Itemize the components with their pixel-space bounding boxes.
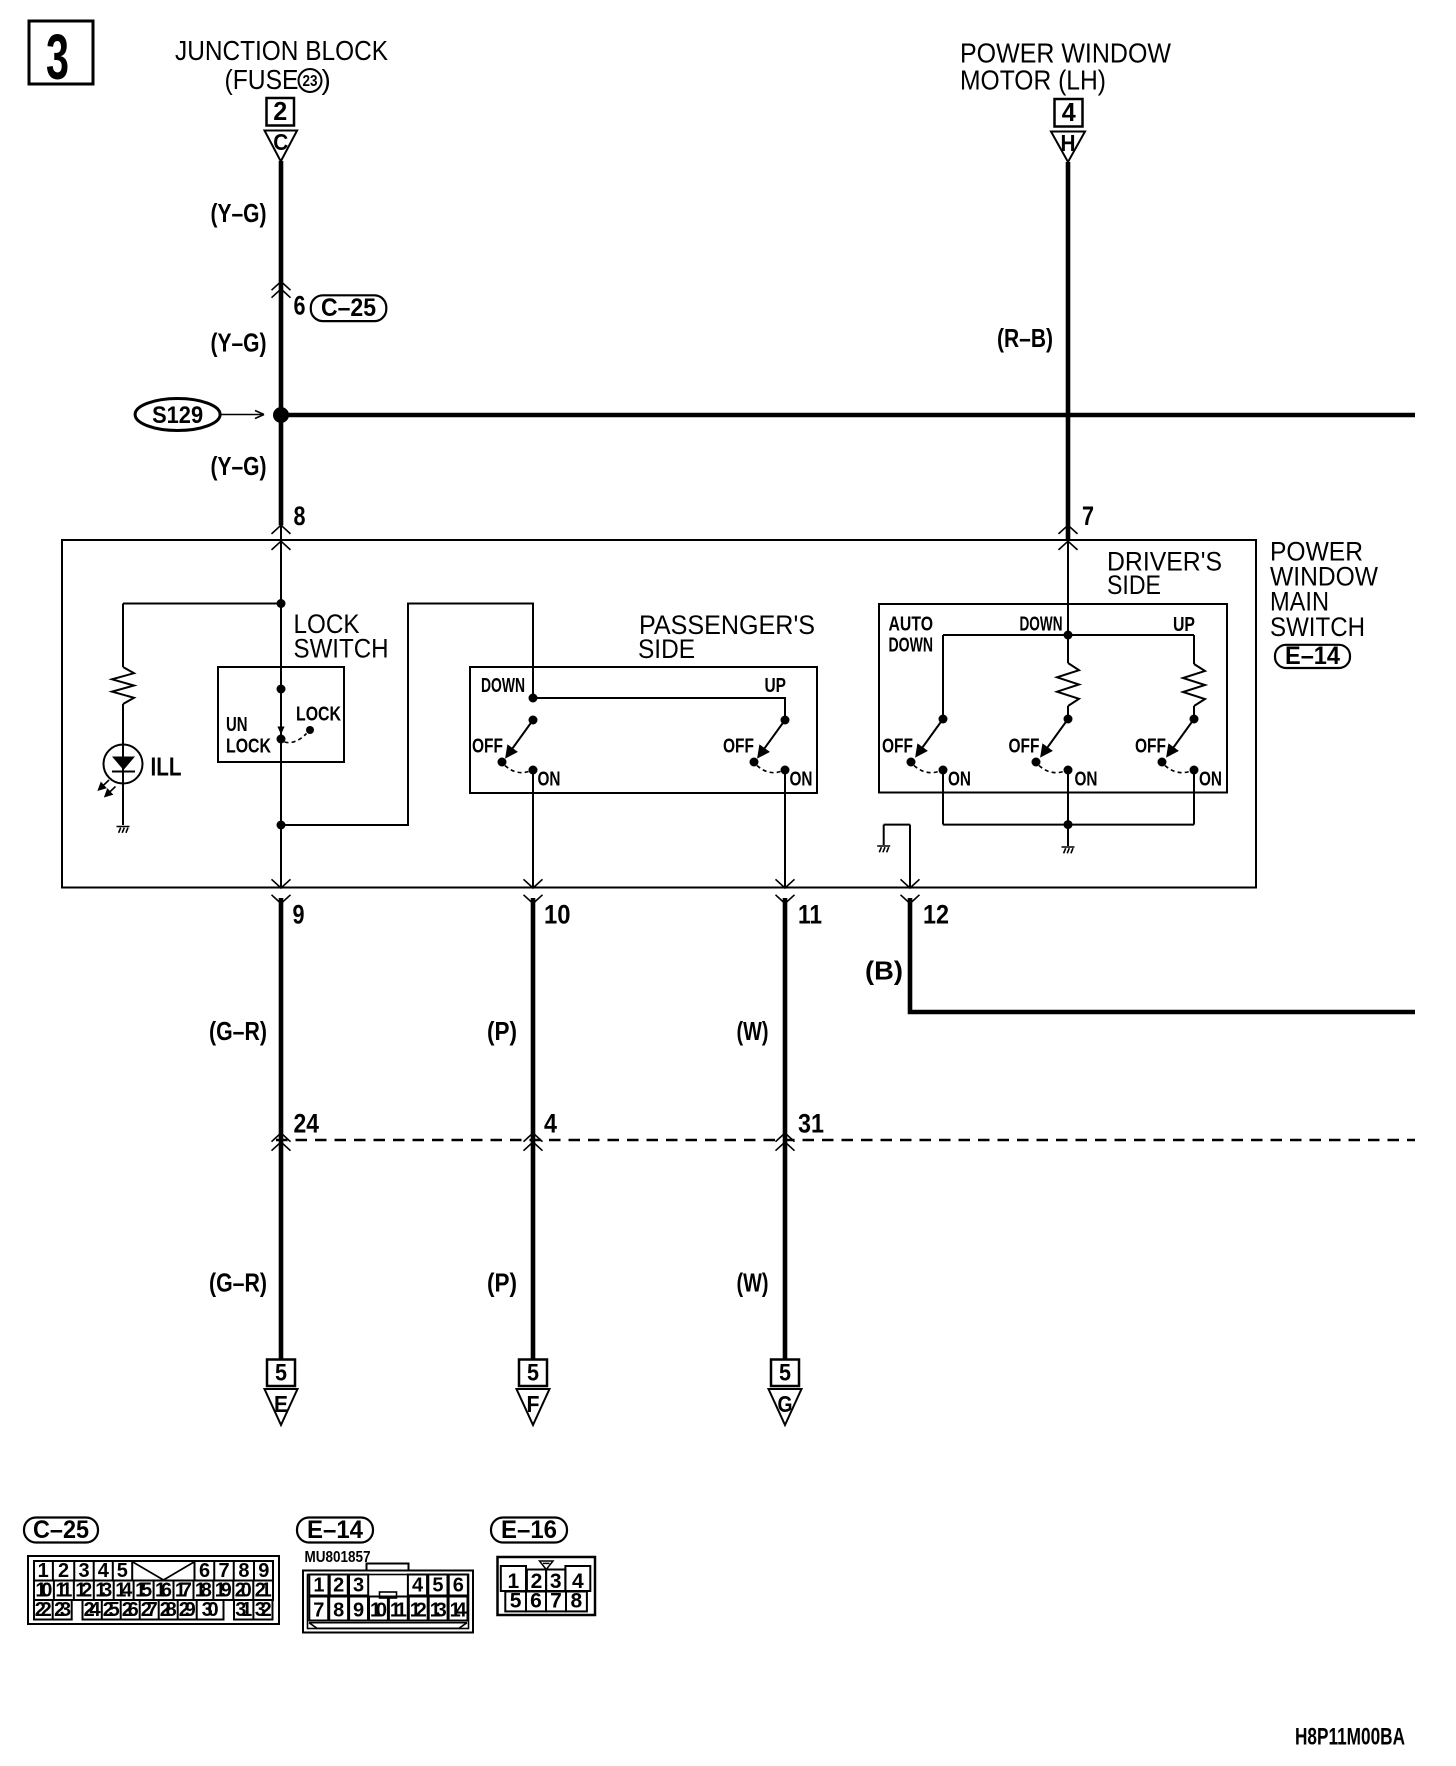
node auto down ON xyxy=(939,766,948,775)
node lock switch top contact xyxy=(277,685,286,694)
connector triangle H xyxy=(1051,132,1085,163)
connector tag C-25 (pinout) xyxy=(24,1518,98,1543)
svg-text:LOCK: LOCK xyxy=(296,704,341,726)
wire: fuse 23 down to S129 junction and on to pin 8 xyxy=(279,161,284,525)
wire: driver feed bus xyxy=(943,634,1194,636)
svg-text:8: 8 xyxy=(333,1600,344,1622)
auto down switch lever xyxy=(917,719,943,755)
connector triangle G xyxy=(769,1389,802,1425)
svg-text:(Y–G): (Y–G) xyxy=(211,451,267,481)
connector pin box 5 (F) xyxy=(519,1360,547,1387)
svg-text:E–16: E–16 xyxy=(501,1516,557,1544)
svg-text:29: 29 xyxy=(179,1599,196,1621)
label POWER WINDOW MAIN SWITCH xyxy=(1270,537,1378,643)
wire: power window motor lead (R-B) xyxy=(1066,162,1071,540)
connector E-14 pinout body xyxy=(303,1564,473,1633)
pin 11 exit chevrons xyxy=(776,879,795,888)
svg-text:UN: UN xyxy=(226,714,248,736)
wire xyxy=(122,704,124,825)
node passenger DOWN contact xyxy=(529,694,538,703)
wire: pin 10 lead (P) xyxy=(531,898,536,1360)
label POWER WINDOW MOTOR (LH) xyxy=(960,38,1172,96)
passenger down throw arc xyxy=(505,766,529,773)
connector pin box 2 xyxy=(267,98,295,126)
svg-text:9: 9 xyxy=(293,900,305,930)
wire: pin 8 feed down through lock switch xyxy=(280,525,282,887)
svg-text:OFF: OFF xyxy=(723,736,754,758)
svg-text:22: 22 xyxy=(35,1599,52,1621)
resistor (driver up) xyxy=(1183,664,1205,706)
svg-text:5: 5 xyxy=(275,1360,287,1387)
dashed line crossing chevrons wire 24 xyxy=(272,1133,291,1142)
svg-text:SIDE: SIDE xyxy=(1107,570,1161,600)
svg-text:SWITCH: SWITCH xyxy=(1270,612,1365,642)
passenger switch box xyxy=(470,667,817,793)
svg-text:(G–R): (G–R) xyxy=(209,1016,267,1046)
lock switch box xyxy=(218,667,344,762)
connector tag C-25 xyxy=(311,295,387,321)
connector E-16 pinout body xyxy=(498,1557,596,1615)
wire: S129 bus to right edge xyxy=(281,413,1415,418)
node auto down OFF xyxy=(907,758,916,767)
harness boundary dashed line xyxy=(276,1139,1415,1142)
svg-text:2: 2 xyxy=(273,96,287,126)
svg-text:DOWN: DOWN xyxy=(889,635,934,657)
connector tag E-14 (pinout) xyxy=(297,1518,373,1543)
connector pin box 4 xyxy=(1055,99,1083,127)
wire: branch to illumination lamp xyxy=(123,603,281,605)
wire: auto down ON drop xyxy=(942,770,944,825)
svg-text:): ) xyxy=(322,64,331,95)
svg-text:11: 11 xyxy=(798,900,822,930)
svg-text:OFF: OFF xyxy=(472,736,503,758)
wire xyxy=(1193,635,1195,664)
svg-text:(Y–G): (Y–G) xyxy=(211,198,267,228)
svg-text:25: 25 xyxy=(103,1599,120,1621)
svg-text:OFF: OFF xyxy=(882,736,913,758)
wire: auto down branch xyxy=(942,635,944,719)
node driver ON bus junction xyxy=(1064,820,1073,829)
connector C-25 pinout body xyxy=(28,1556,279,1624)
svg-text:5: 5 xyxy=(510,1590,522,1613)
wire: driver up ON drop xyxy=(1193,770,1195,825)
svg-text:31: 31 xyxy=(235,1599,252,1621)
svg-text:4: 4 xyxy=(1062,97,1077,127)
pin numbers C-25 row 1 xyxy=(35,1560,272,1621)
wire: ground stub xyxy=(883,825,885,845)
svg-text:3: 3 xyxy=(353,1575,364,1597)
LED ILL lamp xyxy=(99,745,143,797)
wire: DOWN contact to UP switch pivot xyxy=(533,698,785,720)
svg-text:7: 7 xyxy=(1082,501,1094,531)
svg-text:6: 6 xyxy=(453,1575,464,1597)
svg-text:MOTOR (LH): MOTOR (LH) xyxy=(960,65,1106,96)
connector triangle C xyxy=(265,131,298,162)
svg-text:28: 28 xyxy=(160,1599,177,1621)
node driver down OFF xyxy=(1032,758,1041,767)
connector pin box 5 (G) xyxy=(771,1360,799,1387)
node driver up ON xyxy=(1190,766,1199,775)
svg-text:SIDE: SIDE xyxy=(638,634,695,664)
dashed line crossing chevrons wire 4 xyxy=(524,1133,543,1142)
wire: passenger up ON to pin 11 xyxy=(784,770,786,888)
svg-text:24: 24 xyxy=(294,1109,320,1139)
resistor (driver down) xyxy=(1057,663,1079,706)
pin 12 exit chevrons xyxy=(901,879,920,888)
driver up throw arc xyxy=(1165,766,1190,773)
node S129 junction dot xyxy=(273,407,289,423)
driver up switch lever xyxy=(1168,719,1194,755)
svg-text:7: 7 xyxy=(313,1600,324,1622)
svg-text:ON: ON xyxy=(1075,769,1098,791)
driver down switch lever xyxy=(1042,719,1068,755)
svg-text:10: 10 xyxy=(544,900,571,930)
svg-text:23: 23 xyxy=(303,73,318,90)
svg-text:H8P11M00BA: H8P11M00BA xyxy=(1295,1724,1405,1751)
sheet number box 3 xyxy=(29,21,93,84)
wire: pin 11 lead (W) xyxy=(783,898,788,1360)
svg-text:5: 5 xyxy=(527,1360,539,1387)
svg-text:ON: ON xyxy=(1199,769,1222,791)
svg-text:12: 12 xyxy=(410,1600,427,1622)
svg-text:5: 5 xyxy=(432,1575,443,1597)
svg-text:(B): (B) xyxy=(865,956,903,986)
passenger down switch lever xyxy=(507,720,533,756)
svg-text:6: 6 xyxy=(294,291,306,321)
wire: pin 12 branch xyxy=(884,825,910,888)
svg-text:24: 24 xyxy=(84,1599,102,1621)
svg-text:30: 30 xyxy=(202,1599,219,1621)
label JUNCTION BLOCK (FUSE 23) xyxy=(175,35,388,95)
label AUTO DOWN xyxy=(889,614,934,657)
node passenger up OFF xyxy=(750,758,759,767)
svg-text:(P): (P) xyxy=(487,1268,517,1298)
svg-text:ON: ON xyxy=(948,769,971,791)
ground (illumination) xyxy=(117,827,130,833)
connector triangle E xyxy=(265,1389,298,1425)
connector tag E-16 (pinout) xyxy=(491,1518,567,1543)
dashed line crossing chevrons wire 31 xyxy=(776,1133,795,1142)
connector C-25 pin 6 crossing chevrons xyxy=(272,282,291,291)
svg-text:26: 26 xyxy=(122,1599,139,1621)
svg-text:AUTO: AUTO xyxy=(889,614,934,636)
wire: ground stub xyxy=(1067,825,1069,846)
svg-text:LOCK: LOCK xyxy=(226,736,271,758)
svg-text:14: 14 xyxy=(450,1600,468,1622)
svg-text:8: 8 xyxy=(571,1590,583,1613)
node driver up pivot xyxy=(1190,715,1199,724)
node driver down pivot xyxy=(1064,715,1073,724)
svg-text:UP: UP xyxy=(765,675,787,697)
svg-text:10: 10 xyxy=(370,1600,387,1622)
svg-text:13: 13 xyxy=(430,1600,447,1622)
svg-text:8: 8 xyxy=(294,501,306,531)
svg-text:9: 9 xyxy=(353,1600,364,1622)
svg-text:(Y–G): (Y–G) xyxy=(211,328,267,358)
svg-text:1: 1 xyxy=(313,1575,324,1597)
node driver feed junction xyxy=(1064,631,1073,640)
node driver down ON xyxy=(1064,766,1073,775)
wire: driver down ON drop xyxy=(1067,770,1069,825)
node auto down pivot xyxy=(939,715,948,724)
svg-text:OFF: OFF xyxy=(1135,736,1166,758)
svg-text:C: C xyxy=(273,129,288,155)
connector triangle F xyxy=(517,1389,550,1425)
svg-text:C–25: C–25 xyxy=(321,294,376,322)
wire: lock switch output to passenger switch feed xyxy=(281,604,533,826)
passenger up throw arc xyxy=(757,766,781,773)
driver down throw arc xyxy=(1039,766,1064,773)
svg-text:JUNCTION BLOCK: JUNCTION BLOCK xyxy=(175,35,388,66)
node passenger down pivot xyxy=(529,716,538,725)
svg-text:6: 6 xyxy=(530,1590,542,1613)
splice S129 tag xyxy=(135,399,264,431)
label LOCK SWITCH xyxy=(294,609,389,664)
svg-text:ILL: ILL xyxy=(151,752,182,782)
wire xyxy=(1067,635,1069,663)
node driver up OFF xyxy=(1158,758,1167,767)
svg-text:4: 4 xyxy=(412,1575,424,1597)
ground (driver switch) xyxy=(1062,847,1075,853)
pin numbers E-14 xyxy=(313,1575,467,1622)
svg-text:12: 12 xyxy=(923,900,949,930)
wire: driver ON bus xyxy=(943,824,1194,826)
resistor (illumination) xyxy=(112,667,134,704)
wire: pin 12 lead (B) to right edge xyxy=(910,898,1415,1012)
svg-text:ON: ON xyxy=(790,769,813,791)
svg-text:(G–R): (G–R) xyxy=(209,1268,267,1298)
svg-text:MU801857: MU801857 xyxy=(305,1549,371,1566)
driver switch box xyxy=(879,604,1227,793)
svg-text:DOWN: DOWN xyxy=(1020,614,1063,636)
pin 8 entry chevrons xyxy=(272,525,291,534)
label UN LOCK xyxy=(226,714,271,758)
svg-text:DOWN: DOWN xyxy=(481,675,525,697)
wire xyxy=(1067,706,1069,719)
svg-text:S129: S129 xyxy=(152,402,203,429)
svg-text:23: 23 xyxy=(54,1599,71,1621)
svg-text:E–14: E–14 xyxy=(1285,642,1340,670)
svg-text:11: 11 xyxy=(390,1600,407,1622)
pin 7 entry chevrons xyxy=(1059,525,1078,534)
svg-text:(W): (W) xyxy=(737,1268,769,1298)
lock switch throw arc xyxy=(285,734,307,743)
pin numbers E-16 xyxy=(508,1570,584,1613)
svg-text:ON: ON xyxy=(538,769,561,791)
svg-text:OFF: OFF xyxy=(1009,736,1040,758)
svg-text:G: G xyxy=(778,1391,793,1417)
svg-text:E–14: E–14 xyxy=(307,1516,363,1544)
svg-text:C–25: C–25 xyxy=(33,1516,89,1544)
svg-text:3: 3 xyxy=(46,21,69,93)
node passenger down OFF xyxy=(498,758,507,767)
node lock switch output junction xyxy=(277,821,286,830)
node passenger up pivot xyxy=(781,716,790,725)
power window main switch box E-14 xyxy=(62,540,1256,888)
connector pin box 5 (E) xyxy=(267,1360,295,1387)
svg-text:(R–B): (R–B) xyxy=(997,323,1053,353)
svg-text:F: F xyxy=(527,1391,540,1417)
wire: pin 9 lead (G-R) xyxy=(279,898,284,1360)
svg-text:7: 7 xyxy=(550,1590,562,1613)
pin 9 exit chevrons xyxy=(272,879,291,888)
svg-text:2: 2 xyxy=(333,1575,344,1597)
lock switch moving contact arrow xyxy=(277,727,284,735)
svg-text:5: 5 xyxy=(779,1360,791,1387)
svg-text:UP: UP xyxy=(1173,614,1195,636)
svg-text:32: 32 xyxy=(255,1599,272,1621)
wire: pin 7 feed into driver switch xyxy=(1067,540,1069,635)
svg-text:SWITCH: SWITCH xyxy=(294,634,389,664)
connector tag E-14 xyxy=(1275,645,1350,668)
svg-text:4: 4 xyxy=(544,1109,557,1139)
pin 10 exit chevrons xyxy=(524,879,543,888)
node LOCK contact xyxy=(306,726,314,734)
svg-text:(W): (W) xyxy=(737,1016,769,1046)
passenger up switch lever xyxy=(759,720,785,756)
ground (pin 12 branch) xyxy=(877,846,890,852)
label DRIVER'S SIDE xyxy=(1107,547,1222,601)
node passenger down ON xyxy=(529,766,538,775)
node UNLOCK contact xyxy=(277,735,286,744)
svg-text:31: 31 xyxy=(798,1109,824,1139)
node passenger up ON xyxy=(781,766,790,775)
wire xyxy=(1193,706,1195,719)
auto down throw arc xyxy=(914,766,939,773)
node ILL branch junction xyxy=(277,599,286,608)
svg-text:H: H xyxy=(1061,130,1076,156)
svg-text:E: E xyxy=(274,1391,288,1417)
label PASSENGER'S SIDE xyxy=(638,610,815,664)
svg-text:27: 27 xyxy=(141,1599,158,1621)
wire: passenger down ON to pin 10 xyxy=(532,770,534,888)
svg-text:(FUSE: (FUSE xyxy=(225,64,299,95)
svg-text:(P): (P) xyxy=(487,1016,517,1046)
